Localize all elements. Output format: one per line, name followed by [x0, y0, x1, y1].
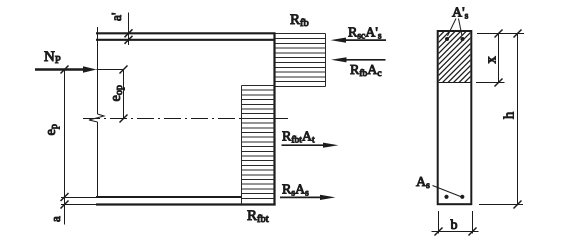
leader line from A_s to bars: [433, 186, 461, 197]
svg-text:A's: A's: [452, 6, 469, 22]
tick h top: [514, 30, 522, 38]
hatched block R_fb (compression stress): [276, 34, 326, 87]
label e_op: [108, 85, 125, 101]
svg-text:RsAs: RsAs: [282, 183, 309, 199]
tick h bottom: [514, 201, 522, 209]
arrow R_s A_s: [280, 195, 336, 200]
hatched strip R_fbt (tension stress): [242, 86, 275, 204]
top chord line 1 (top fiber): [96, 32, 276, 34]
bottom extension line for h dimension: [479, 204, 523, 206]
label b: [451, 218, 458, 233]
top extension line for x and h dimensions: [477, 33, 524, 35]
tick b left: [435, 228, 443, 236]
svg-text:As: As: [416, 175, 430, 191]
right edge of stress diagram: [273, 33, 275, 206]
leader lines from A's to bars: [448, 19, 463, 37]
dimension x line: [498, 34, 500, 83]
neutral axis line at depth x: [439, 82, 471, 84]
label R_fbt: [247, 208, 269, 225]
dimension a' extension line: [128, 13, 130, 46]
dimension b line: [432, 231, 479, 233]
svg-text:b: b: [451, 218, 458, 233]
extension of bottom lines to dimension a: [61, 198, 96, 205]
tick e_op bottom: [120, 115, 128, 123]
arrow R_fbt A_t: [282, 143, 339, 148]
tick a at bottom fiber: [61, 201, 69, 209]
tick e_p at As level: [61, 193, 69, 201]
dimension e_p line: [64, 70, 66, 225]
svg-text:RscA's: RscA's: [348, 26, 382, 42]
label a: [48, 216, 63, 222]
wire: left edge of stress diagram (upper part): [97, 27, 99, 114]
label R_fb A_c: [350, 63, 382, 79]
break symbol on left edge: [89, 114, 104, 122]
svg-text:a: a: [48, 216, 63, 222]
label x: [484, 56, 500, 64]
label N_P: [44, 49, 61, 66]
bottom extension line for x dimension: [476, 82, 505, 84]
svg-text:x: x: [484, 56, 500, 64]
label a': [109, 13, 124, 21]
tick a' bottom: [125, 36, 133, 44]
svg-text:a': a': [109, 13, 124, 21]
label R_s A_s: [282, 183, 309, 199]
wire: left edge of stress diagram (lower part): [97, 122, 99, 197]
compression zone hatch (depth x): [430, 0, 485, 128]
dimension h line: [517, 34, 519, 205]
label R_fbt A_t: [282, 130, 315, 146]
bottom line 1 (reinforcement As level): [96, 196, 242, 198]
tick b right: [469, 228, 477, 236]
label R_fb: [290, 12, 309, 29]
force N_P arrow: [35, 66, 124, 72]
tick e_p top: [61, 66, 69, 74]
label R_sc A'_s: [348, 26, 382, 42]
top chord line 2 (reinforcement A's level): [96, 39, 276, 41]
dimension e_op line: [123, 70, 125, 119]
svg-text:Rfb: Rfb: [290, 12, 309, 29]
tick a' top: [125, 29, 133, 37]
svg-text:h: h: [502, 111, 518, 119]
rebar dots A's: [445, 37, 465, 41]
rebar dots A_s: [444, 195, 464, 199]
svg-text:Rfbt: Rfbt: [247, 208, 269, 225]
centroid axis (dash-dot): [83, 118, 288, 120]
tick x top: [495, 30, 503, 38]
label A_s: [416, 175, 430, 191]
arrow R_fb A_c: [331, 57, 386, 62]
svg-text:ep: ep: [43, 124, 60, 135]
label A's: [452, 6, 469, 22]
svg-text:eop: eop: [108, 85, 125, 101]
tick x bottom: [495, 79, 503, 87]
svg-text:RfbtAt: RfbtAt: [282, 130, 315, 146]
bottom line 2 (bottom fiber): [96, 203, 276, 205]
extension lines for b dimension: [439, 211, 473, 234]
svg-text:NP: NP: [44, 49, 61, 66]
arrow R_sc A's: [331, 38, 387, 43]
tick e_op top: [120, 66, 128, 74]
cross-section outline: [438, 31, 472, 204]
svg-text:RfbAc: RfbAc: [350, 63, 382, 79]
label e_p: [43, 124, 60, 135]
label h: [502, 111, 518, 119]
